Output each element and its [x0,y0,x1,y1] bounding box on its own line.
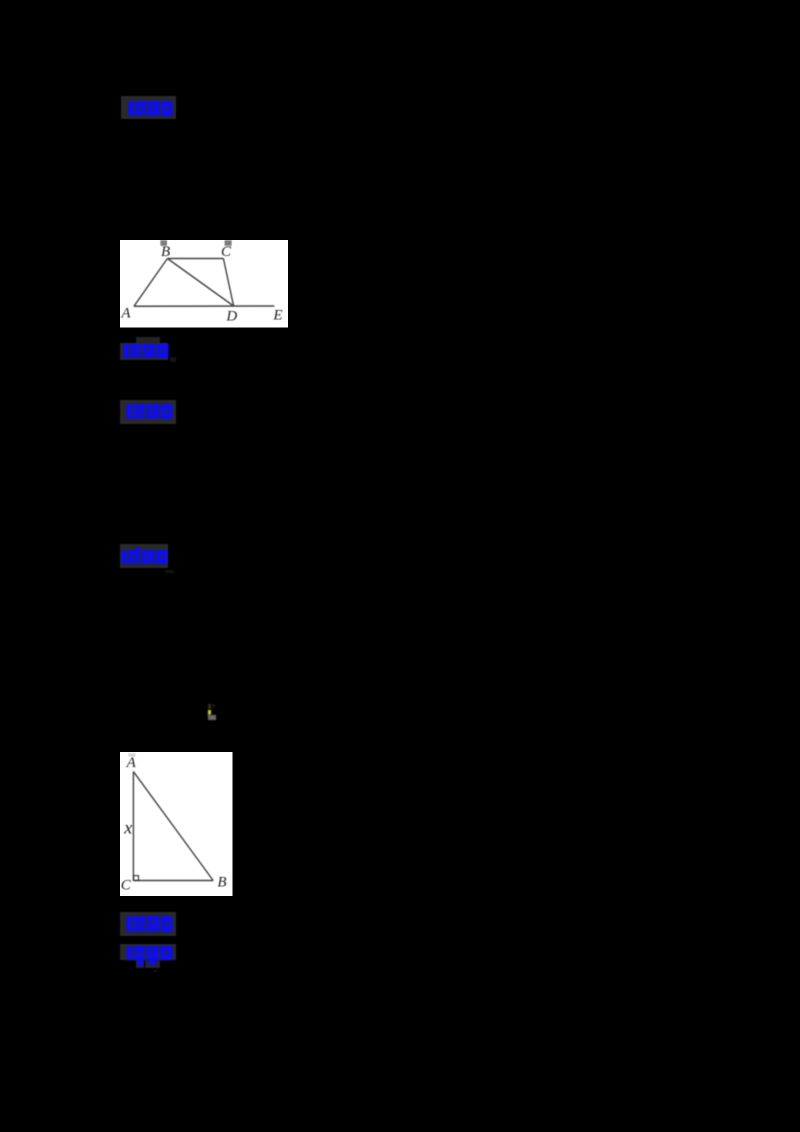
wire: top BC [167,257,223,259]
gray tab above B [160,240,167,246]
svg-text:B: B [217,875,226,891]
svg-text:A: A [120,305,131,321]
figure 1: trapezoid ABCD with ray to E [120,240,289,328]
answer label L5 shading box [120,912,176,936]
answer label L1 blue text [128,101,173,116]
answer label L6 shading box [120,944,176,960]
answer label L4 blue text [121,550,168,564]
figure 2: right triangle ABC [120,752,233,897]
wire: hypotenuse AB [133,772,213,881]
answer label L4 blue nub [135,547,140,550]
answer label L4 shading box [120,544,168,568]
shaded fragment above label L2 [136,337,160,344]
small shade right of L2 [170,357,176,363]
svg-text:C: C [120,878,131,894]
answer label L6 blue text [126,946,172,960]
answer label L3 shading box [120,400,177,424]
wire: side AB [133,258,167,306]
answer label L2 blue text [123,344,168,358]
wire: side CD [223,258,233,306]
answer label L3 blue text [126,404,172,420]
faint shade below-right of L4 [165,570,174,573]
gray tab above C [224,240,231,246]
svg-text:B: B [161,244,170,260]
svg-text:C: C [221,244,232,260]
shade fragments below L6 [136,960,144,968]
answer label L2 shading box [120,343,169,360]
wire: side AC [132,772,134,881]
answer label L1 shading box [121,96,177,119]
wire: base line A to E [133,305,274,307]
blue descenders below L6 [137,960,143,966]
right angle marker at C [133,876,138,881]
svg-text:E: E [272,307,282,323]
svg-text:D: D [225,308,237,324]
yellow highlighted fragment [208,704,211,710]
faint fragment below L6 [154,970,158,972]
answer label L5 blue text [126,916,173,932]
svg-text:A: A [125,755,136,771]
white figure background [120,752,233,896]
gray tab above A [128,753,135,757]
wire: diagonal BD [167,258,233,306]
white figure background [120,240,288,328]
wire: base CB [133,880,213,882]
svg-text:x: x [123,817,132,837]
